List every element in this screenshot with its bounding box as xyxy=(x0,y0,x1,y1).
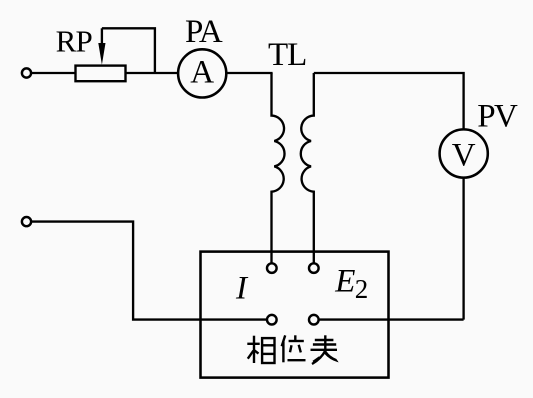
svg-text:PA: PA xyxy=(185,14,223,50)
char 位 xyxy=(282,335,306,362)
svg-text:E: E xyxy=(334,264,355,300)
wire (PV down to bottom rail) xyxy=(462,178,464,320)
svg-text:RP: RP xyxy=(56,24,92,59)
svg-text:TL: TL xyxy=(268,37,306,73)
terminal (bottom-left input) xyxy=(22,217,31,226)
char 表 xyxy=(311,335,338,364)
wiper arrow xyxy=(98,28,105,65)
terminal (top-left input) xyxy=(22,68,31,77)
wire (bottom rail to E2 terminal) xyxy=(319,318,463,320)
resistor RP xyxy=(76,66,126,82)
wire (wiper loop to resistor right) xyxy=(102,28,155,73)
svg-text:PV: PV xyxy=(477,98,518,134)
wire (RP to ammeter) xyxy=(126,72,179,74)
wire (secondary top to PV branch) xyxy=(314,73,464,130)
transformer TL secondary winding xyxy=(301,73,314,263)
wire (top-left terminal to RP) xyxy=(32,72,76,74)
svg-text:V: V xyxy=(452,138,476,174)
terminal (I input, top-left in box) xyxy=(267,263,277,273)
wire (ammeter to transformer primary) xyxy=(226,72,272,74)
transformer TL primary winding xyxy=(272,73,285,263)
label 相位表 (phase meter) xyxy=(247,335,337,364)
terminal (E2 return, bottom-right in box) xyxy=(309,315,319,325)
ammeter PA xyxy=(178,49,226,97)
svg-text:A: A xyxy=(190,54,214,90)
terminal (E2 input, top-right in box) xyxy=(309,263,319,273)
svg-text:I: I xyxy=(235,271,249,307)
char 相 xyxy=(247,336,274,363)
wire (bottom-left terminal to phase meter I terminal) xyxy=(32,222,267,320)
terminal (I return, bottom-left in box) xyxy=(267,315,277,325)
label E2 xyxy=(334,264,368,304)
phase meter box xyxy=(201,252,389,378)
svg-text:2: 2 xyxy=(355,274,369,304)
voltmeter PV xyxy=(440,129,488,177)
